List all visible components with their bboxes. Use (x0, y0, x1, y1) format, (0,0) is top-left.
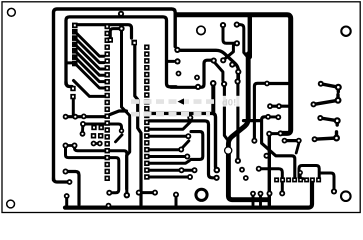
wire H50.3 diagonal down to pads x238 (180, 50, 238, 78)
wire H_mid1 horizontal y116 (66, 111, 127, 117)
wire V0b corner to square pad (66, 82, 72, 87)
wire H1 top long trace with corner down to pad (54, 9, 176, 180)
wire H15 thick top trace to big right vertical down to corner left (176, 15, 291, 134)
wire bar pads 284.5,140.5 (285, 139, 299, 142)
bottom rail H_bot2 (65, 181, 312, 208)
wire H172 to corner down pad 283.5,193 (259, 169, 283, 191)
wire pad P2 arm left and down (110, 29, 121, 37)
wire diag B pad222,62 to pad 238,71.5 then V down to pad 238,161 (236, 72, 239, 158)
wire dumbbell d1 (321, 84, 339, 92)
wire thick V213 from pad83 down (211, 85, 215, 112)
wire V250 thick descends with jogs to bottom corner right (248, 17, 252, 57)
round pads: black donut (63, 11, 342, 209)
wire H_mid2 from pad 83,124 corner down to pad 121.5,130.5 (83, 124, 122, 129)
cluster square pads near 92,133 (70, 37, 137, 138)
wire pad pair y133.5 (269, 132, 280, 135)
wire pad334 up corner left (320, 173, 334, 190)
wire Pi shape over square row (299, 166, 319, 178)
wire V261.6 chain: pad pair y116.9 corner down diag to H155.8 corner down to pad row (262, 117, 295, 177)
wire V254.5 chain from pad 267,83.3 down to pad 254.4,140.7 (254, 83, 265, 138)
wire chain pad 65.5,145.5 to pad column (66, 146, 105, 158)
wire V224.5 down from pad 224,84 (224, 87, 227, 140)
mounting hole bottom-right (341, 191, 351, 201)
wire H3 from IC1 pin1 corner down middle vertical (77, 25, 132, 38)
IC1 right column pads (long strip) (105, 24, 110, 181)
mounting hole top-right (341, 27, 350, 36)
IC2 long middle column pads (144, 45, 149, 180)
bottom right square pad row y180 (274, 177, 321, 182)
wire pad 66.5,198 stub down to rail (65, 196, 68, 206)
round pad holes (64, 13, 339, 207)
wire pad pair y105 to V290 (270, 105, 288, 108)
wire stub pad 82.5,133.5 up (81, 126, 84, 132)
wire H121 row corner down corner right to pad 216.6,177.8 (149, 121, 214, 178)
wire H2 inner trace to V corner down (66, 17, 176, 87)
wire pad pair y116.9 trace (268, 115, 278, 118)
wire chain A: pad175.5 right corner down corner left C-shape (171, 60, 213, 87)
wire P_c corner down right V244 merge (237, 25, 247, 57)
wire pad 176,195 stub (175, 195, 178, 206)
wire cluster pair y142 (94, 142, 100, 145)
watermark arrow (178, 98, 185, 104)
wire rho hook on pad 300.3,172.6 (300, 174, 303, 179)
wire H113 long row corner down to pad 216.8,170 (149, 113, 216, 167)
wire top cluster: pad 223,25 down corner right to pad 237,43 (223, 27, 234, 43)
svg-text:d0!: d0! (222, 98, 236, 109)
mounting hole bottom-left (7, 200, 15, 208)
wire pad 65.5,171.5 arm right down to bottom rail (66, 172, 80, 205)
watermark dashed bar 1 (131, 102, 222, 115)
wire V middle long down to bottom rail (135, 45, 141, 205)
wire V0a bottom corner arm (54, 178, 69, 182)
wire chain pad 74.5,145.5 to pad column (75, 146, 105, 151)
wire T-arm to pad 177.5,61.4 (167, 60, 174, 63)
wire P_b left arm diagonal down to pad 222,62 (224, 43, 235, 59)
big ring hole bottom middle (196, 189, 207, 200)
mounting hole top-left (7, 8, 15, 16)
wire row 156.5 (149, 155, 185, 158)
wire dumbbell d3 (320, 118, 337, 125)
wire row 163.3 bend up (149, 161, 189, 164)
via hole on thick vertical (225, 147, 231, 153)
wire stubs pads 253/260.5 to rail (253, 195, 261, 205)
wire pad col151 arm right corner down V127 to pad 126.8,195 (110, 151, 127, 192)
wire V270 from pad pair down merging bottom rail (268, 134, 271, 205)
wire stub from square pad 71,96 down to H_mid1 (72, 99, 75, 115)
wire row 129.2 diag up V190.5 (149, 119, 190, 130)
wire pad A diag chain to pad 224,84 (214, 62, 223, 81)
IC1 diagonal traces (67, 32, 104, 97)
wire row 170.2 (149, 169, 192, 172)
wire bar pads connector down (296, 144, 299, 154)
wire row 177 (149, 176, 188, 179)
wire pad col158 arm right corner down V118.8 corner left to pad 109.3,192.8 (110, 158, 119, 193)
watermark whiteout (216, 96, 243, 107)
wire dumbbell bottom left (139, 191, 155, 194)
wire branch y83 to pad pair (268, 82, 288, 85)
wire link pads 65.5-74.5 (66, 144, 75, 147)
wire row 136.2 to pad in bracket (149, 135, 186, 138)
wire dumbbell d2 (314, 95, 339, 105)
wire diag near col (116, 135, 123, 142)
wire dumbbell d4 (315, 132, 337, 139)
wire branch y120 L-shape up to pad pair y112 (244, 119, 261, 122)
wire P2 long vertical down with jogs to bottom pad (122, 30, 130, 189)
IC1 left column square pads (72, 23, 78, 67)
bracket loop open left (191, 132, 203, 160)
mounting hole mid-top (197, 26, 205, 34)
wire row 149.7 to pad and diagonal up (149, 141, 189, 150)
